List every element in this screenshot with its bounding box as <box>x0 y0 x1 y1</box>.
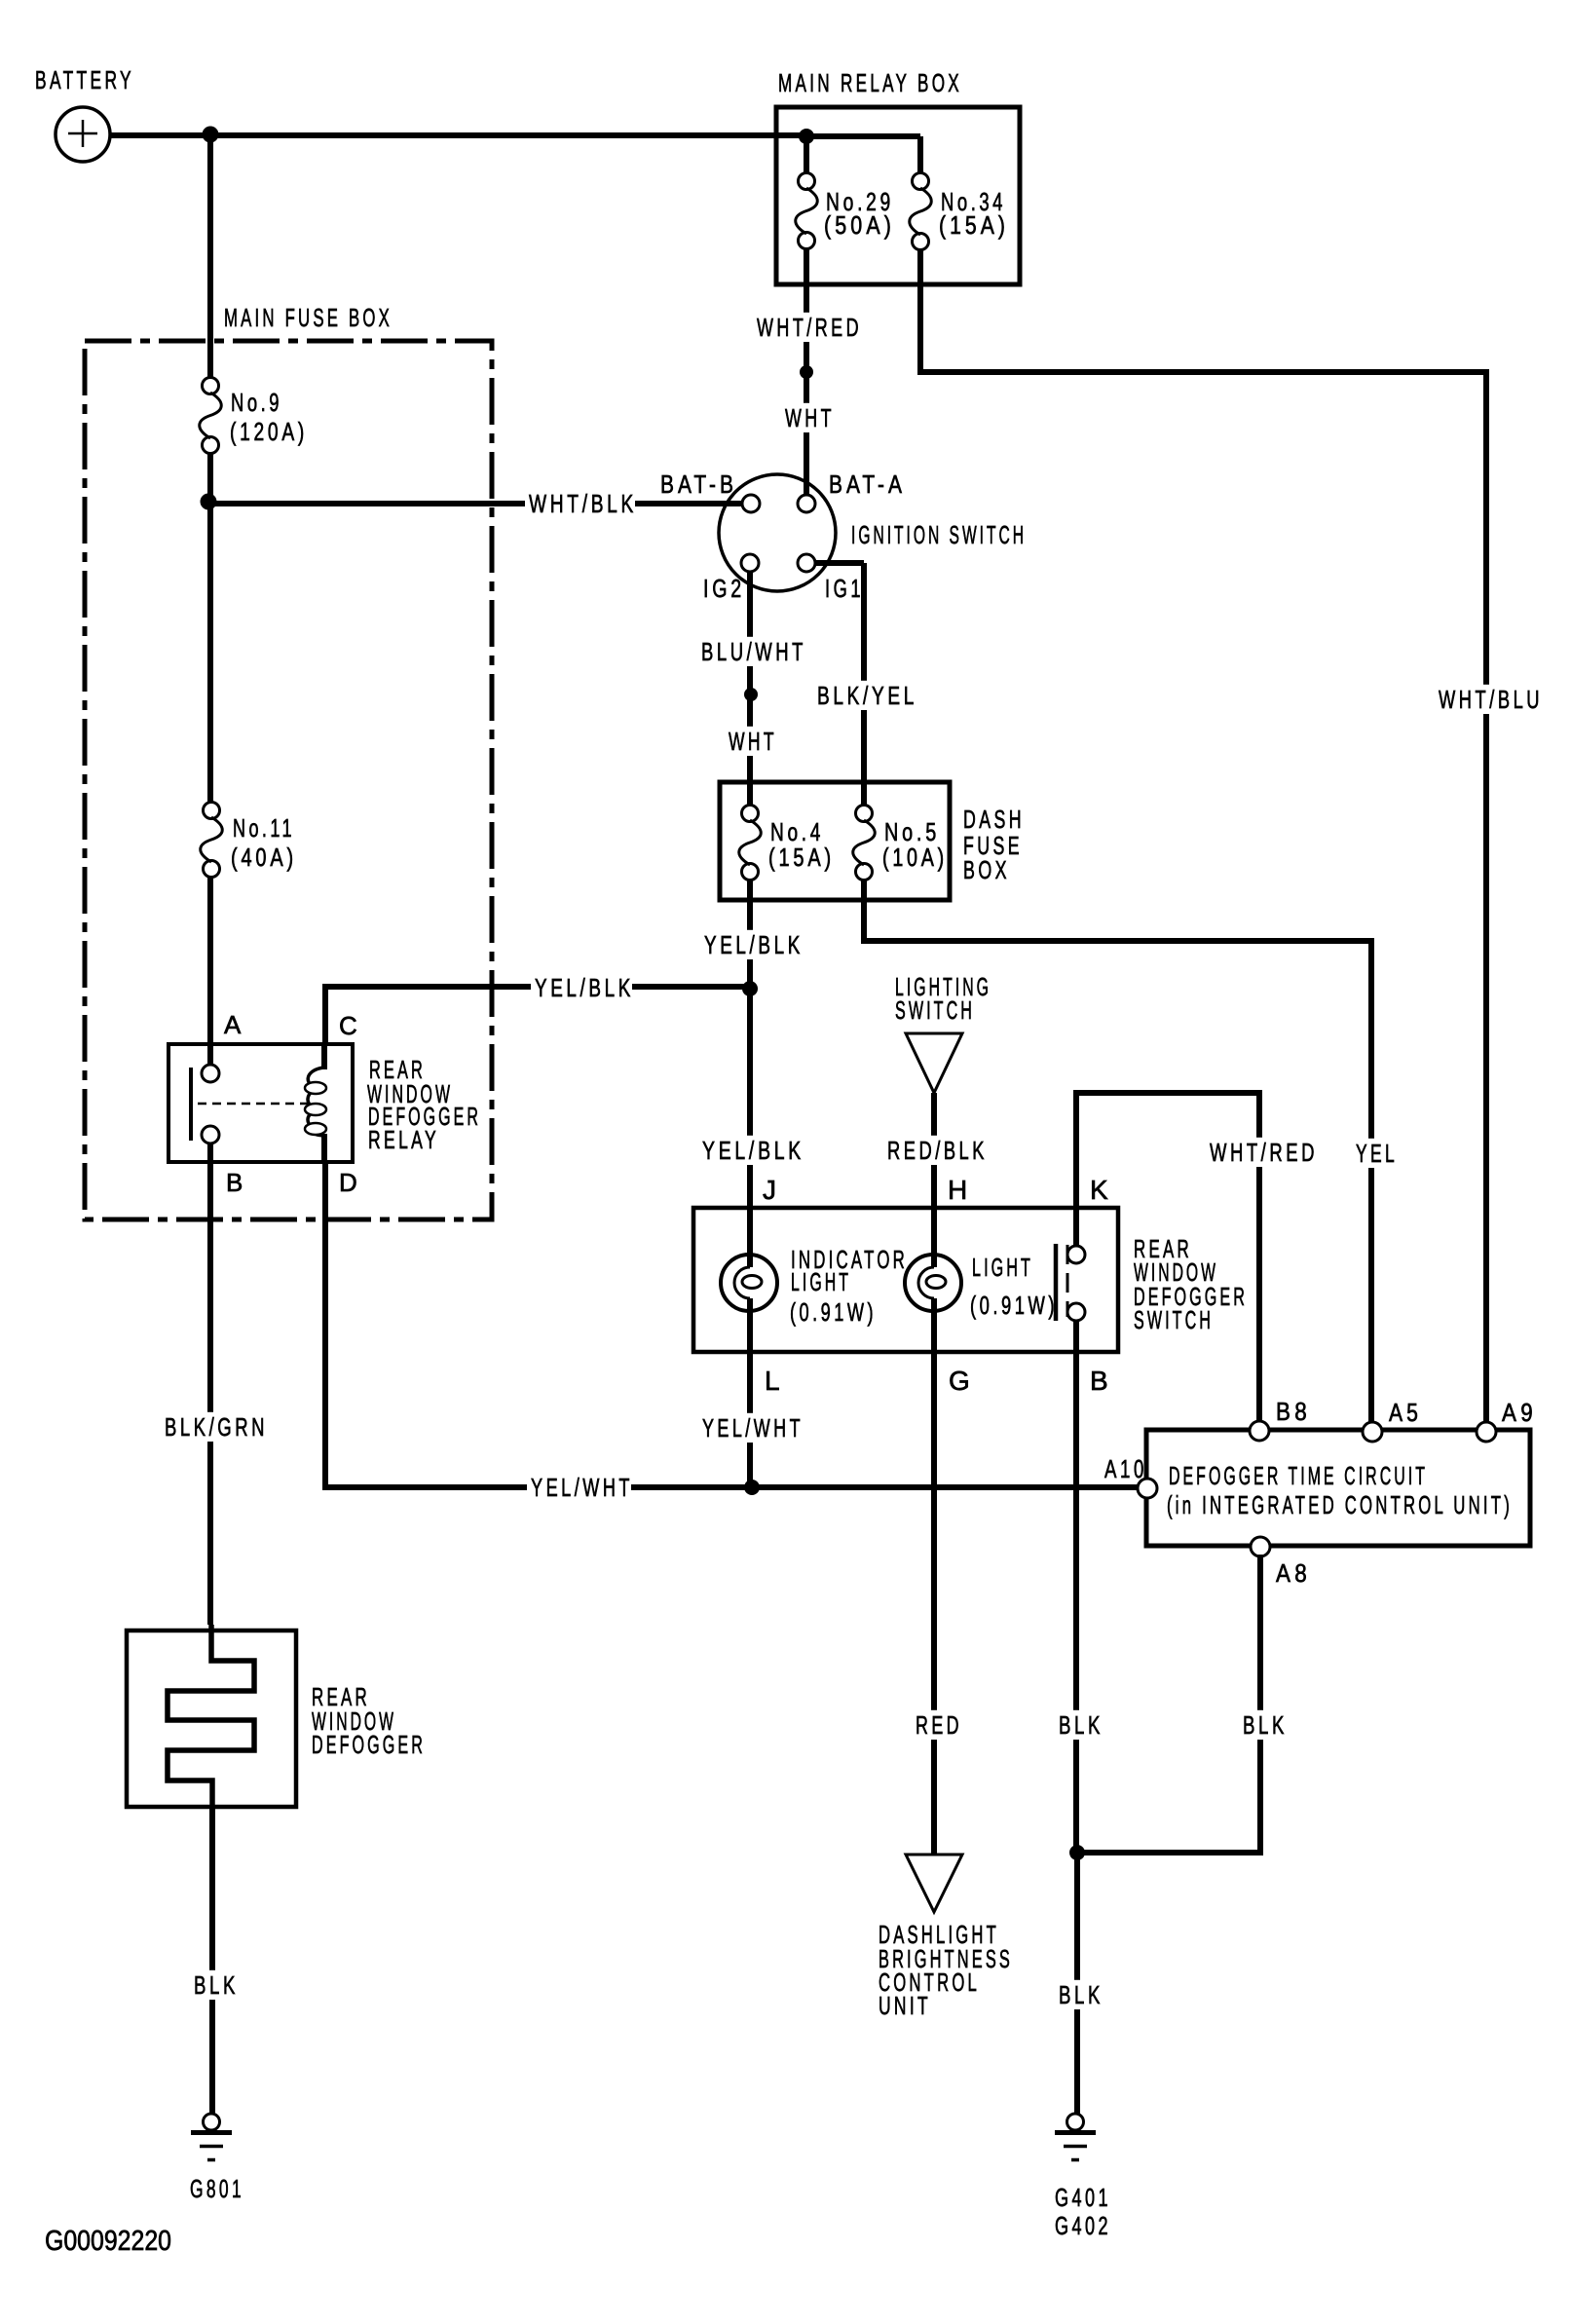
svg-text:YEL/BLK: YEL/BLK <box>535 973 634 1002</box>
wire inside main relay box to fuse No.34 branch <box>806 133 920 139</box>
svg-text:IG1: IG1 <box>825 574 864 603</box>
svg-text:RED/BLK: RED/BLK <box>887 1136 988 1165</box>
wire YEL/BLK branch to relay coil pin C <box>325 987 750 1044</box>
svg-text:LIGHT: LIGHT <box>972 1253 1033 1282</box>
svg-text:YEL/BLK: YEL/BLK <box>702 1136 804 1165</box>
svg-text:WHT/RED: WHT/RED <box>1210 1138 1318 1167</box>
relay actuation dashed link <box>198 1103 308 1106</box>
fuse No.11 (40A) <box>201 803 223 878</box>
svg-text:(50A): (50A) <box>824 210 895 240</box>
junction at battery feed <box>203 127 219 143</box>
fuse No.9 (120A) <box>200 378 222 454</box>
label BLK <box>1055 1980 1102 2009</box>
junction WHT/BLK branch <box>201 494 217 510</box>
main fuse box outline (dashed) <box>85 341 492 1219</box>
label YEL/BLK <box>531 973 632 1002</box>
svg-text:No.9: No.9 <box>231 388 282 417</box>
svg-text:WHT: WHT <box>729 727 777 756</box>
label WHT/BLK <box>525 489 635 518</box>
rear window defogger switch box outline <box>693 1208 1118 1352</box>
svg-text:B: B <box>226 1168 247 1197</box>
wire to fuse No.29 <box>804 136 809 174</box>
svg-text:J: J <box>763 1175 781 1205</box>
svg-text:B: B <box>1090 1366 1113 1396</box>
time circuit pin B8 <box>1250 1421 1269 1441</box>
svg-text:SWITCH: SWITCH <box>1134 1305 1214 1334</box>
svg-text:YEL/BLK: YEL/BLK <box>704 930 804 959</box>
junction inside main relay box <box>799 129 814 144</box>
wire BLU/WHT / WHT from IG2 to fuse No.4 <box>747 572 753 806</box>
svg-text:BLK: BLK <box>1059 1980 1103 2009</box>
svg-text:BLU/WHT: BLU/WHT <box>701 637 806 666</box>
svg-text:G801: G801 <box>190 2174 244 2203</box>
fuse No.34 (15A) <box>910 173 932 250</box>
defogger switch pin upper <box>1067 1246 1085 1263</box>
svg-text:BOX: BOX <box>963 855 1010 884</box>
wire YEL/WHT from relay pin D to time circuit A10 <box>325 1162 1138 1487</box>
splice WHT/RED-WHT <box>800 365 813 379</box>
label RED <box>912 1710 960 1740</box>
label WHT/RED <box>1206 1138 1316 1167</box>
relay pin A contact <box>202 1065 219 1082</box>
fuse No.29 (50A) <box>796 173 818 249</box>
svg-text:A8: A8 <box>1276 1558 1311 1588</box>
label YEL/BLK <box>698 1136 803 1165</box>
main relay box outline <box>776 107 1020 284</box>
time circuit pin A8 <box>1251 1537 1270 1556</box>
svg-text:No.11: No.11 <box>233 813 295 843</box>
dashlight brightness control unit connector triangle <box>906 1855 962 1912</box>
label RED/BLK <box>883 1136 986 1165</box>
ground G801 <box>191 2114 232 2160</box>
ignition switch body <box>719 474 836 591</box>
svg-text:WHT/BLU: WHT/BLU <box>1439 685 1543 714</box>
light bulb <box>905 1255 961 1311</box>
svg-text:RELAY: RELAY <box>368 1125 439 1154</box>
wire battery to main relay box <box>110 132 806 138</box>
label YEL <box>1352 1139 1396 1168</box>
fuse No.5 (10A) <box>853 806 876 881</box>
relay coil <box>305 1044 326 1162</box>
svg-text:BLK: BLK <box>194 1970 239 2000</box>
svg-text:G: G <box>949 1366 975 1396</box>
svg-text:(in INTEGRATED CONTROL UNIT): (in INTEGRATED CONTROL UNIT) <box>1167 1490 1513 1519</box>
wire BLK from switch B down to ground junction <box>1073 1320 1079 1853</box>
label YEL/WHT <box>698 1413 802 1443</box>
svg-text:SWITCH: SWITCH <box>895 995 975 1025</box>
wire to fuse No.34 <box>917 136 923 174</box>
svg-text:BLK: BLK <box>1243 1710 1288 1740</box>
svg-text:G402: G402 <box>1055 2211 1111 2240</box>
rear window defogger relay outline <box>168 1044 353 1162</box>
splice BLU/WHT-WHT <box>744 688 758 701</box>
svg-text:(0.91W): (0.91W) <box>790 1297 877 1327</box>
wire WHT/BLK to ignition BAT-B <box>208 501 742 506</box>
wire BLK from defogger to ground G801 <box>209 1807 215 2115</box>
svg-text:(120A): (120A) <box>230 417 308 446</box>
svg-text:LIGHT: LIGHT <box>791 1267 851 1296</box>
wire WHT/RED from switch K to time circuit B8 <box>1076 1093 1259 1423</box>
lighting switch connector triangle <box>906 1033 962 1093</box>
svg-text:UNIT: UNIT <box>879 1991 931 2020</box>
svg-text:A: A <box>224 1010 245 1039</box>
ignition pin BAT-A <box>798 495 815 512</box>
wire WHT/BLU from fuse No.34 to time circuit A9 <box>920 249 1486 1423</box>
svg-text:WHT/RED: WHT/RED <box>757 313 862 342</box>
svg-text:YEL/WHT: YEL/WHT <box>702 1413 804 1443</box>
wire YEL from fuse No.5 to time circuit A5 <box>864 880 1371 1423</box>
label WHT/BLU <box>1435 685 1541 714</box>
label BLK <box>1239 1710 1286 1740</box>
svg-text:D: D <box>339 1168 362 1197</box>
battery B+ terminal <box>56 107 110 162</box>
svg-text:(15A): (15A) <box>939 210 1009 240</box>
svg-text:G401: G401 <box>1055 2183 1111 2212</box>
svg-text:(10A): (10A) <box>882 843 948 872</box>
wire BLK from time circuit A8 to ground junction <box>1077 1555 1260 1853</box>
fuse No.4 (15A) <box>739 806 762 881</box>
wire BLK/GRN from relay pin B to rear window defogger <box>207 1143 213 1625</box>
defogger switch contact <box>1056 1244 1067 1321</box>
label WHT/RED <box>753 313 860 342</box>
svg-text:B8: B8 <box>1276 1397 1311 1426</box>
svg-text:RED: RED <box>916 1710 962 1740</box>
svg-text:L: L <box>765 1366 785 1396</box>
label BLK <box>1055 1710 1102 1740</box>
time circuit pin A10 <box>1138 1479 1157 1498</box>
wire YEL/BLK from fuse No.4 to indicator light and L to YEL/WHT junction <box>747 880 753 1487</box>
label BLK <box>190 1970 237 2000</box>
svg-text:A10: A10 <box>1104 1454 1147 1483</box>
ignition pin IG2 <box>741 554 759 572</box>
svg-text:(0.91W): (0.91W) <box>970 1291 1058 1320</box>
svg-text:MAIN RELAY BOX: MAIN RELAY BOX <box>778 68 962 97</box>
wire RED/BLK / RED from lighting switch through light to dashlight unit <box>931 1093 937 1855</box>
label BLK/YEL <box>813 681 916 710</box>
ignition pin BAT-B <box>742 495 760 512</box>
svg-text:WHT/BLK: WHT/BLK <box>529 489 637 518</box>
junction YEL/BLK <box>742 981 758 996</box>
svg-text:IGNITION SWITCH: IGNITION SWITCH <box>851 520 1027 549</box>
rear window defogger heater element <box>168 1625 254 1810</box>
wire BLK/YEL from IG1 to fuse No.5 <box>815 563 864 806</box>
junction BLK ground <box>1069 1845 1085 1860</box>
wire fuse No.11 to relay pin A <box>207 876 213 1067</box>
svg-text:BLK/GRN: BLK/GRN <box>165 1412 268 1442</box>
label YEL/WHT <box>527 1473 631 1502</box>
svg-text:G00092220: G00092220 <box>45 2226 171 2257</box>
junction YEL/WHT <box>744 1480 760 1495</box>
dash fuse box outline <box>720 782 950 900</box>
defogger switch pin lower <box>1067 1303 1085 1321</box>
svg-text:BATTERY: BATTERY <box>35 65 134 94</box>
svg-text:BAT-A: BAT-A <box>829 469 906 499</box>
svg-text:YEL: YEL <box>1356 1139 1398 1168</box>
wire BLK to ground G401 G402 <box>1074 1853 1080 2115</box>
label BLU/WHT <box>697 637 804 666</box>
label WHT <box>781 403 833 432</box>
svg-text:DEFOGGER TIME CIRCUIT: DEFOGGER TIME CIRCUIT <box>1169 1461 1428 1490</box>
svg-text:DASH: DASH <box>963 805 1025 834</box>
svg-text:BLK/YEL: BLK/YEL <box>817 681 917 710</box>
label WHT <box>725 727 775 756</box>
ground G401 G402 <box>1055 2114 1096 2160</box>
svg-text:C: C <box>339 1011 362 1040</box>
svg-text:H: H <box>948 1175 972 1205</box>
svg-text:BAT-B: BAT-B <box>660 469 737 499</box>
indicator light bulb <box>721 1255 777 1311</box>
defogger time circuit box outline <box>1146 1430 1530 1546</box>
svg-text:(15A): (15A) <box>768 843 835 872</box>
time circuit pin A9 <box>1477 1422 1496 1442</box>
svg-text:YEL/WHT: YEL/WHT <box>531 1473 633 1502</box>
relay contact armature <box>189 1068 193 1141</box>
svg-text:WHT: WHT <box>785 403 835 432</box>
svg-text:BLK: BLK <box>1059 1710 1103 1740</box>
wire WHT/RED / WHT from fuse No.29 to ignition BAT-A <box>804 248 809 496</box>
svg-text:IG2: IG2 <box>703 574 745 603</box>
wire battery junction down to fuse No.9 <box>207 134 213 379</box>
svg-text:(40A): (40A) <box>231 843 297 872</box>
svg-text:A5: A5 <box>1389 1398 1422 1427</box>
relay pin B contact <box>202 1126 219 1143</box>
label YEL/BLK <box>700 930 802 959</box>
svg-text:K: K <box>1090 1175 1113 1205</box>
time circuit pin A5 <box>1363 1422 1382 1442</box>
rear window defogger box outline <box>127 1631 296 1807</box>
wire fuse No.9 to fuse No.11 <box>207 453 213 804</box>
ignition pin IG1 <box>798 554 815 572</box>
svg-text:A9: A9 <box>1502 1398 1537 1427</box>
label BLK/GRN <box>161 1412 266 1442</box>
svg-text:MAIN FUSE BOX: MAIN FUSE BOX <box>224 303 393 332</box>
svg-text:DEFOGGER: DEFOGGER <box>312 1730 426 1759</box>
